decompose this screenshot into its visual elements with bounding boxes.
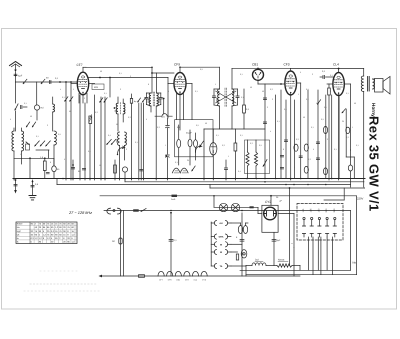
value table <box>16 222 77 244</box>
svg-text:0,3: 0,3 <box>128 116 131 119</box>
svg-text:10: 10 <box>99 164 101 167</box>
svg-text:0,1: 0,1 <box>241 96 244 99</box>
tube CB1 <box>253 69 264 80</box>
svg-text:0,1: 0,1 <box>346 92 349 95</box>
svg-text:CF7: CF7 <box>77 63 83 67</box>
svg-text:1: 1 <box>228 155 229 158</box>
switch contacts band selector <box>26 122 29 127</box>
switch g2 <box>70 97 73 102</box>
ground rail <box>13 178 365 180</box>
svg-text:0,5: 0,5 <box>200 68 203 71</box>
svg-text:0,1: 0,1 <box>175 161 178 164</box>
svg-text:~: ~ <box>291 242 293 246</box>
svg-text:8: 8 <box>283 148 284 151</box>
svg-text:2: 2 <box>312 73 313 76</box>
capacitor trimmer <box>21 105 22 108</box>
pilot lamp <box>241 250 247 258</box>
switch arrows tuning <box>35 141 40 146</box>
capacitor C12 <box>224 168 227 169</box>
heater coils <box>158 271 164 276</box>
svg-text:CF3: CF3 <box>185 279 189 282</box>
svg-text:2: 2 <box>330 90 331 93</box>
resistor heater <box>139 275 145 278</box>
svg-text:1: 1 <box>294 166 295 169</box>
svg-text:CL4: CL4 <box>194 279 197 282</box>
switch osc <box>107 139 112 144</box>
mains switch <box>141 209 146 212</box>
switch in box <box>200 141 204 147</box>
resistor R1 <box>44 158 46 161</box>
switch S1 <box>23 79 27 84</box>
svg-text:1: 1 <box>20 153 21 156</box>
mains resistor <box>133 209 139 211</box>
capacitor C15 <box>316 142 319 143</box>
svg-text:CF9: CF9 <box>174 63 180 67</box>
svg-text:CF9: CF9 <box>168 279 172 282</box>
svg-text:Netztr.: Netztr. <box>278 259 285 262</box>
svg-text:50: 50 <box>303 116 305 119</box>
resistor R5 <box>177 139 181 147</box>
IF transformer 1 <box>155 106 157 180</box>
svg-text:4: 4 <box>270 130 271 133</box>
svg-text:GRA: GRA <box>219 236 224 239</box>
resistor R2 hatched <box>89 116 92 124</box>
svg-text:0,3: 0,3 <box>250 142 253 145</box>
svg-text:0,2: 0,2 <box>270 88 273 91</box>
capacitor C13 <box>263 98 266 99</box>
terminal column <box>210 222 212 266</box>
svg-text:0,1: 0,1 <box>24 102 27 105</box>
wires terminals right <box>231 222 241 224</box>
wire AVC bus <box>204 128 265 130</box>
capacitor C6 <box>82 169 85 170</box>
capacitor C10b <box>166 155 170 157</box>
capacitor input <box>50 80 51 83</box>
svg-text:Dr2: Dr2 <box>255 259 260 262</box>
svg-text:0,5: 0,5 <box>259 144 262 147</box>
top rail B+ <box>291 68 364 70</box>
svg-text:0,2: 0,2 <box>296 138 299 141</box>
voltage selector panel <box>297 204 343 241</box>
choke Dr2 <box>246 265 252 267</box>
box AVC <box>175 120 213 157</box>
switch g1 <box>65 97 68 102</box>
wire left column down <box>21 158 23 164</box>
tube CY2 <box>262 205 278 232</box>
capacitor IFT1 left <box>145 98 148 99</box>
capacitor antenna coupling <box>14 74 17 75</box>
trimmer circle <box>52 166 57 172</box>
capacitor IFT2 left <box>212 96 215 97</box>
svg-text:CB1: CB1 <box>176 279 180 282</box>
terminal AU <box>211 222 214 224</box>
svg-text:2: 2 <box>47 124 48 127</box>
svg-text:5: 5 <box>146 118 147 121</box>
terminal TA <box>211 265 214 267</box>
svg-text:5: 5 <box>313 148 314 151</box>
svg-text:0,1: 0,1 <box>104 92 107 95</box>
capacitor C10a <box>167 118 169 125</box>
wire antenna input <box>16 81 78 83</box>
svg-text:0,2: 0,2 <box>95 111 98 114</box>
svg-text:4: 4 <box>60 88 61 91</box>
wire mains left <box>104 210 351 212</box>
switch diagonal mid <box>192 166 195 171</box>
svg-text:CB1: CB1 <box>252 63 258 67</box>
lamp 2 <box>231 203 239 211</box>
wires right of CL4 <box>338 96 340 179</box>
svg-text:0,2: 0,2 <box>346 136 349 139</box>
terminal W <box>211 243 214 245</box>
svg-text:0,1: 0,1 <box>277 120 280 123</box>
component small <box>26 144 30 150</box>
switch S2 <box>41 79 45 84</box>
svg-text:5: 5 <box>10 118 11 121</box>
svg-text:5: 5 <box>316 102 317 105</box>
box tone network <box>245 140 270 174</box>
svg-text:5: 5 <box>64 158 65 161</box>
svg-text:8: 8 <box>50 161 51 164</box>
heater line <box>102 275 300 277</box>
svg-text:0,1: 0,1 <box>324 106 327 109</box>
resistor R3 <box>114 165 117 173</box>
svg-text:TA: TA <box>220 265 223 268</box>
svg-text:50: 50 <box>354 102 356 105</box>
wire with hump <box>155 114 172 117</box>
svg-text:8: 8 <box>148 83 149 86</box>
svg-text:0,1: 0,1 <box>334 148 337 151</box>
svg-text:2: 2 <box>327 138 328 141</box>
svg-text:CF7: CF7 <box>159 279 163 282</box>
wire CB1 top rail <box>232 67 291 69</box>
long verticals mid <box>138 103 140 180</box>
svg-text:5: 5 <box>300 71 301 74</box>
ground arrow left <box>15 180 17 190</box>
svg-text:0,1: 0,1 <box>330 74 333 77</box>
capacitor 8uF 1 <box>241 222 243 276</box>
svg-text:0,5: 0,5 <box>321 118 324 121</box>
svg-text:0,1: 0,1 <box>195 90 198 93</box>
rail 4 <box>210 187 365 189</box>
resistor R4b <box>130 98 132 103</box>
rail 2 <box>125 181 364 183</box>
svg-text:5: 5 <box>168 90 169 93</box>
bottom bus 1 <box>240 269 351 271</box>
svg-text:50: 50 <box>250 86 252 89</box>
terminal GRA <box>211 236 214 238</box>
wire anode CF7 <box>152 72 174 74</box>
tube diode oval <box>210 143 217 155</box>
mains plug connector <box>107 208 121 214</box>
wires under tube CF7 <box>65 82 67 180</box>
svg-text:220V: 220V <box>357 197 363 200</box>
tube CL4 <box>333 73 344 96</box>
mains wire A <box>100 195 357 197</box>
capacitor C20 <box>170 213 172 276</box>
svg-text:0,5: 0,5 <box>88 150 91 153</box>
resistor R5c <box>194 140 198 148</box>
svg-text:2: 2 <box>84 97 85 100</box>
resistor R8 <box>234 143 237 151</box>
bottom bus 2 <box>246 274 357 276</box>
coil osc top pair <box>116 103 118 114</box>
resistor zigzag R9 <box>246 152 249 166</box>
resistor mains <box>266 265 277 267</box>
svg-text:1: 1 <box>215 83 216 86</box>
svg-text:1: 1 <box>73 88 74 91</box>
coil L1 antenna <box>12 131 14 151</box>
fuse holders <box>238 226 242 234</box>
output transformer <box>363 69 365 77</box>
svg-text:0,1: 0,1 <box>119 72 122 75</box>
switch hook right <box>196 145 202 152</box>
svg-text:Rex 35 GW V/1: Rex 35 GW V/1 <box>367 116 382 212</box>
svg-text:Horny: Horny <box>370 103 376 117</box>
svg-text:0,2: 0,2 <box>306 98 309 101</box>
svg-text:1: 1 <box>165 144 166 147</box>
component Gl <box>119 238 122 244</box>
rail 3 <box>57 184 351 186</box>
svg-text:2: 2 <box>272 98 273 101</box>
switch hook left <box>118 146 125 154</box>
wire output return corner <box>343 188 345 200</box>
svg-text:2mΩ: 2mΩ <box>171 198 176 201</box>
svg-text:0,1: 0,1 <box>62 96 65 99</box>
svg-text:0,1: 0,1 <box>311 126 314 129</box>
svg-text:0,5: 0,5 <box>196 124 199 127</box>
svg-text:CL4: CL4 <box>333 63 339 67</box>
svg-text:50: 50 <box>30 115 32 118</box>
svg-text:0,4: 0,4 <box>238 170 241 173</box>
svg-text:4µF: 4µF <box>18 75 23 78</box>
wire screen CF7 <box>89 77 168 79</box>
resistor R5b <box>188 139 192 147</box>
tube CF7 <box>77 72 88 95</box>
svg-text:0,5: 0,5 <box>284 108 287 111</box>
coil osc bottom pair <box>118 132 120 145</box>
capacitor IFT2 right <box>236 96 239 97</box>
dial double hump <box>172 168 188 173</box>
svg-text:2: 2 <box>267 106 268 109</box>
capacitor on mid vertical <box>140 170 143 171</box>
svg-text:CY2: CY2 <box>202 279 206 282</box>
coupling circle component <box>34 105 39 110</box>
band switch box MW <box>92 84 104 90</box>
switch wave band <box>15 104 18 110</box>
trimmer circle C7 <box>122 167 127 172</box>
svg-text:AU: AU <box>219 222 223 225</box>
selector verticals <box>308 237 310 270</box>
resistor small <box>236 254 238 260</box>
ground symbol main <box>32 180 34 195</box>
svg-text:CY2: CY2 <box>265 200 271 204</box>
wire antenna down <box>15 82 17 103</box>
capacitor C5 <box>71 168 74 169</box>
svg-text:8µF: 8µF <box>277 239 281 242</box>
svg-text:2: 2 <box>126 148 127 151</box>
svg-text:50: 50 <box>262 90 264 93</box>
svg-text:0,1: 0,1 <box>240 73 243 76</box>
resistor zigzag R10 <box>254 152 257 166</box>
svg-text:0,1: 0,1 <box>216 134 219 137</box>
coil L3 oscillator left <box>52 97 54 104</box>
junction dots <box>62 178 64 180</box>
lamp 1 <box>219 203 227 211</box>
coil L2 antenna <box>22 131 24 151</box>
switch g4 <box>104 98 107 103</box>
svg-text:CF3: CF3 <box>284 63 290 67</box>
svg-text:0,1: 0,1 <box>356 144 359 147</box>
svg-text:0,3: 0,3 <box>157 126 160 129</box>
svg-text:50: 50 <box>205 122 207 125</box>
wires right section <box>264 84 266 179</box>
grid components CL4 <box>323 75 324 78</box>
svg-text:2: 2 <box>120 88 121 91</box>
variable arrows IFT2 <box>216 91 237 103</box>
loudspeaker <box>373 79 375 89</box>
svg-text:1: 1 <box>298 93 299 96</box>
capacitor C16 <box>284 140 287 141</box>
svg-text:0,1: 0,1 <box>135 141 138 144</box>
terminal W <box>211 251 214 253</box>
wire B+ return <box>289 188 291 266</box>
switch tone <box>263 160 267 167</box>
svg-text:50: 50 <box>123 110 126 112</box>
svg-text:0,2: 0,2 <box>222 144 225 147</box>
IF transformer 2 <box>218 89 220 106</box>
svg-text:Röhre: Röhre <box>17 223 24 226</box>
svg-text:50µµF: 50µµF <box>186 132 193 135</box>
antenna <box>10 62 22 66</box>
resistor R7 <box>243 89 245 105</box>
svg-text:1: 1 <box>352 126 353 129</box>
svg-text:0,1: 0,1 <box>36 135 39 138</box>
mid bus left <box>14 157 54 159</box>
svg-text:0,1: 0,1 <box>306 88 309 91</box>
small components ovals <box>304 166 308 173</box>
capacitor C14 <box>299 156 302 157</box>
svg-text:27 ~ 128 kHz: 27 ~ 128 kHz <box>68 210 92 215</box>
svg-text:0,3: 0,3 <box>308 158 311 161</box>
switch g3 <box>100 98 103 103</box>
wire lamp <box>214 206 258 208</box>
svg-text:50: 50 <box>114 110 117 112</box>
svg-text:25: 25 <box>187 159 189 162</box>
svg-text:50: 50 <box>116 123 118 126</box>
svg-text:0,1: 0,1 <box>240 134 243 137</box>
svg-text:25: 25 <box>342 120 344 123</box>
svg-text:50: 50 <box>69 110 71 113</box>
capacitor 8uF 2 <box>273 232 275 265</box>
svg-text:2: 2 <box>130 75 131 78</box>
svg-text:2000: 2000 <box>125 139 128 143</box>
svg-text:0,4: 0,4 <box>108 134 111 137</box>
tube CF3 <box>285 71 297 95</box>
svg-text:50: 50 <box>100 70 102 73</box>
svg-text:0,5: 0,5 <box>58 133 61 136</box>
svg-text:•: • <box>294 247 295 250</box>
tube CF9 <box>174 73 186 95</box>
capacitor IFT1 right <box>159 98 162 99</box>
